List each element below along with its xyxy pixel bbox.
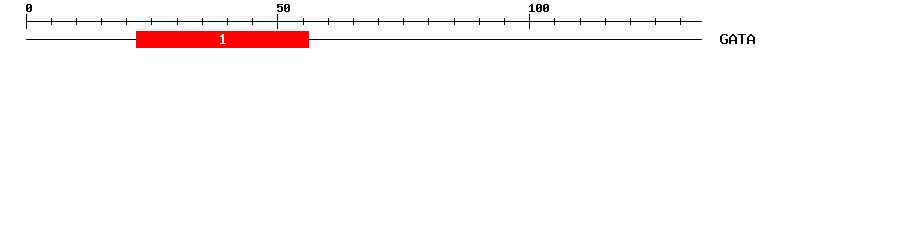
ruler minor tick at 120: [630, 18, 631, 25]
ruler minor tick at 45: [252, 18, 253, 25]
ruler minor tick at 130: [680, 18, 681, 25]
ruler minor tick at 90: [479, 18, 480, 25]
track key label "GATA": [720, 34, 755, 44]
ruler minor tick at 95: [504, 18, 505, 25]
ruler minor tick at 55: [303, 18, 304, 25]
ruler minor tick at 75: [403, 18, 404, 25]
feature 1 red box (span 22-56): [136, 31, 309, 48]
ruler major tick at 50: [277, 14, 278, 29]
ruler major tick at 100: [529, 14, 530, 29]
ruler minor tick at 125: [655, 18, 656, 25]
ruler minor tick at 80: [428, 18, 429, 25]
feature label "1" (white, centered in box): [220, 34, 226, 44]
ruler major tick label "50": [277, 4, 290, 12]
ruler major tick label "0": [26, 4, 32, 12]
ruler minor tick at 10: [76, 18, 77, 25]
ruler minor tick at 20: [126, 18, 127, 25]
ruler minor tick at 25: [151, 18, 152, 25]
ruler minor tick at 35: [202, 18, 203, 25]
ruler major tick at 0: [26, 14, 27, 29]
ruler minor tick at 85: [454, 18, 455, 25]
ruler minor tick at 115: [605, 18, 606, 25]
ruler minor tick at 15: [101, 18, 102, 25]
ruler minor tick at 30: [177, 18, 178, 25]
ruler minor tick at 5: [51, 18, 52, 25]
ruler minor tick at 70: [378, 18, 379, 25]
ruler minor tick at 40: [227, 18, 228, 25]
ruler minor tick at 60: [328, 18, 329, 25]
ruler axis line: [26, 21, 702, 22]
feature track connector line: [26, 39, 702, 40]
background: [0, 0, 900, 58]
ruler minor tick at 65: [353, 18, 354, 25]
ruler major tick label "100": [529, 4, 549, 12]
ruler minor tick at 105: [554, 18, 555, 25]
ruler minor tick at 110: [580, 18, 581, 25]
